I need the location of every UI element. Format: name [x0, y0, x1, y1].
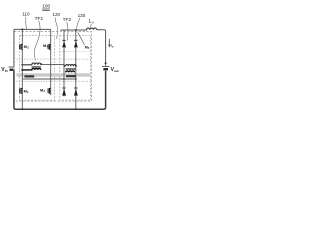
transformer TF2 core [66, 68, 76, 69]
grey internal dashed line (left box) [16, 58, 90, 60]
leader to label M5 [78, 33, 85, 46]
svg-text:in: in [5, 69, 8, 73]
wire: top-left Vin bus [14, 28, 51, 30]
transformer TF2 secondary winding [66, 71, 75, 72]
svg-text:5: 5 [88, 46, 90, 50]
leader from 130 [76, 18, 79, 29]
grey winding band [17, 73, 91, 76]
wire: left rail upper [13, 29, 15, 66]
leader from 120 [55, 18, 57, 40]
outer dashed box 100 [14, 32, 91, 102]
output current arrow Io [108, 39, 114, 49]
node dot bottom left branch [21, 108, 23, 110]
wire: M4 branch vertical [50, 29, 52, 95]
transistor M3 [20, 44, 23, 50]
transformer TF1 core [32, 67, 41, 68]
node dot y79 left diode branch [63, 78, 65, 80]
node dot TF2 left [63, 65, 65, 67]
leader from TF1 [34, 21, 40, 61]
input source Vin [9, 67, 15, 70]
diode D1 top-left of rectifier [62, 40, 66, 47]
transistor M1 [20, 88, 23, 94]
wire: M3 branch vertical [21, 29, 23, 109]
grey dashed bus y81 [16, 80, 90, 82]
svg-text:120: 120 [52, 12, 60, 17]
transformer TF1 secondary winding [21, 68, 41, 70]
svg-text:o: o [92, 20, 94, 24]
node label Vin [1, 67, 7, 73]
svg-text:3: 3 [27, 46, 29, 50]
leader from Lo [90, 24, 93, 27]
wire: mid horizontal bus y79 [22, 78, 76, 80]
svg-text:100: 100 [42, 3, 50, 9]
transformer TF1 primary winding [21, 63, 41, 65]
grey internal dashed line (right box) [60, 50, 91, 52]
wire: left diode branch vertical [63, 30, 65, 96]
svg-text:110: 110 [22, 12, 30, 17]
diode D4 bottom-right of rectifier [74, 88, 78, 96]
node dot TF1 right [40, 63, 42, 65]
wire TF1 to TF2 [41, 63, 64, 65]
svg-text:130: 130 [78, 13, 86, 18]
wire: top-right rectified bus [60, 29, 87, 31]
transistor M4 [48, 44, 51, 50]
node dot above output cap [105, 62, 107, 64]
leader from 110 [25, 17, 28, 29]
svg-text:2: 2 [43, 89, 45, 93]
inner dashed box 130 (right rectifier + TF2) [60, 35, 91, 100]
leader from TF2 [67, 22, 68, 41]
transistor M2 [48, 88, 51, 94]
inductor Lo [87, 28, 97, 30]
diode D3 bottom-left of rectifier [62, 88, 66, 96]
svg-text:out: out [114, 69, 119, 73]
node dot bottom right branch [75, 108, 77, 110]
figure number 100 [42, 3, 50, 10]
node dot on right bus [75, 29, 77, 31]
svg-text:o: o [112, 44, 114, 48]
svg-text:1: 1 [27, 90, 29, 94]
diode D2 top-right of rectifier [74, 40, 78, 47]
inner dashed box 110 (left bridge + TF1) [19, 35, 54, 100]
wire: output rail lower + bottom return wire + left rail lower [14, 70, 106, 109]
node dot y79 right diode branch [75, 78, 77, 80]
wire: right diode branch vertical [75, 30, 77, 109]
wire: Lo to output corner [97, 30, 106, 66]
node dot on bus at M3 branch [21, 28, 23, 30]
node label Vout [111, 67, 119, 73]
transformer TF2 primary winding [66, 65, 76, 67]
TF2 lower thick winding bar [66, 75, 76, 77]
output capacitor [102, 66, 109, 69]
TF1 lower thick winding bar [24, 75, 34, 77]
node dot TF2 right [75, 65, 77, 67]
